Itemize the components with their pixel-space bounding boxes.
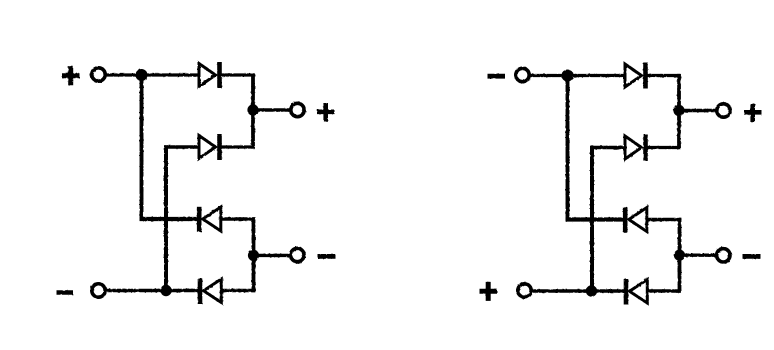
terminal T3 (DC output negative)	[291, 248, 304, 261]
wire	[647, 289, 681, 292]
wire	[253, 108, 291, 111]
wire	[164, 145, 198, 148]
diode D2	[199, 134, 220, 160]
diode D4	[200, 279, 221, 305]
wire	[106, 289, 199, 292]
label + (AC input bottom-right circuit)	[480, 282, 498, 301]
label − (DC output negative right circuit)	[743, 254, 761, 259]
wire	[251, 73, 255, 148]
wire	[254, 254, 291, 257]
wire	[142, 73, 199, 76]
wire	[678, 218, 682, 293]
terminal T4 (bottom-left input)	[92, 284, 105, 297]
wire	[220, 145, 255, 148]
node B	[247, 104, 258, 115]
terminal T7 (DC output negative right circuit)	[717, 249, 730, 262]
wire	[646, 146, 681, 149]
wire	[568, 74, 625, 77]
wire	[164, 145, 168, 292]
diode D6	[625, 135, 646, 161]
terminal T5 (top input right circuit)	[516, 68, 529, 81]
diode D5	[625, 63, 646, 89]
diode D3	[199, 207, 221, 232]
wire	[252, 217, 256, 292]
wire	[646, 74, 681, 77]
label − (DC output negative)	[318, 254, 336, 259]
node C	[248, 250, 259, 261]
wire	[220, 73, 255, 76]
terminal T1 (top-left input)	[92, 68, 105, 81]
wire	[530, 74, 569, 77]
wire	[106, 73, 143, 76]
wire	[677, 74, 681, 149]
node F	[673, 105, 684, 116]
wire	[679, 109, 717, 112]
label + (AC input top-left)	[62, 66, 80, 85]
wire	[221, 217, 255, 220]
wire	[566, 76, 570, 222]
diode D8	[626, 279, 647, 305]
diode D1	[199, 62, 220, 88]
node D	[160, 285, 171, 296]
node A	[136, 69, 148, 81]
label + (DC output positive)	[317, 103, 335, 122]
label − (AC input top-right circuit)	[488, 74, 506, 79]
terminal T8 (bottom input right circuit)	[518, 284, 531, 297]
label − (AC input bottom-left)	[57, 290, 74, 294]
terminal T6 (DC output positive right circuit)	[717, 104, 730, 117]
terminal T2 (DC output positive)	[291, 103, 304, 116]
wire	[680, 253, 717, 256]
wire	[566, 217, 624, 221]
node H	[586, 285, 597, 296]
diode D7	[625, 207, 647, 232]
wire	[140, 217, 198, 221]
node E	[562, 70, 574, 82]
node G	[674, 250, 685, 261]
wire	[590, 146, 594, 293]
wire	[140, 75, 144, 221]
label + (DC output positive right circuit)	[744, 104, 762, 123]
wire	[221, 289, 255, 292]
wire	[590, 146, 624, 149]
wire	[647, 218, 681, 221]
wire	[532, 289, 625, 292]
